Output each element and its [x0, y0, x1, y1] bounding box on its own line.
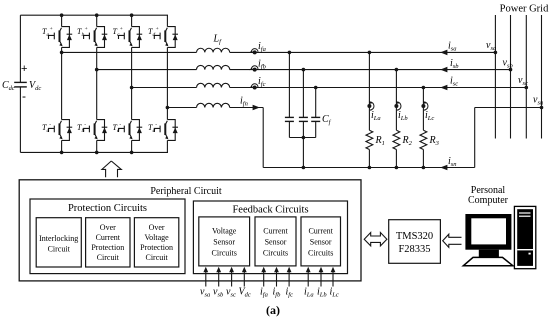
current arrow i_fn	[253, 105, 260, 111]
arrow PC to TMS320	[443, 234, 462, 247]
resistor R2	[393, 70, 400, 168]
wire: leg 1 vertical	[61, 15, 63, 152]
svg-text:-: -	[22, 89, 26, 103]
current sensor mark i_La	[367, 101, 374, 110]
resistor R1	[366, 52, 373, 167]
wire: leg 2 vertical	[96, 15, 98, 152]
svg-text:Power Grid: Power Grid	[500, 4, 549, 15]
node: leg3 phase c tap	[130, 86, 134, 90]
current sensor mark i_fa	[249, 49, 258, 55]
Feedback Circuits box	[193, 201, 347, 274]
Protection Circuits box	[30, 199, 185, 274]
arrowhead i_La	[306, 267, 311, 272]
svg-text:(a): (a)	[266, 303, 280, 317]
wire: arrow i_Lc	[332, 271, 334, 287]
wire: arrow i_fa	[263, 271, 265, 287]
transistor Tc-	[119, 120, 143, 141]
node: line a cap branch	[288, 51, 292, 55]
wire: arrow v_sc	[231, 271, 233, 287]
wire: phase a line with inductor	[62, 48, 496, 52]
current sensor mark i_fc	[249, 84, 258, 90]
labels: inverter transistors	[42, 26, 159, 134]
current sensor mark i_Lc	[421, 101, 428, 110]
wire: arrow i_La	[307, 271, 309, 287]
node: cap bus center	[302, 136, 306, 140]
Current Sensor Circuits box 1	[255, 217, 296, 266]
arrowhead V_dc	[242, 267, 247, 272]
node: neutral R1	[368, 166, 372, 170]
wire: capacitor bus to neutral	[302, 138, 304, 168]
arrowhead i_Lc	[331, 267, 336, 272]
current arrow i_sa	[440, 50, 447, 56]
transistor Td-	[154, 120, 178, 141]
capacitor Cdc	[14, 82, 27, 87]
power grid line 1	[494, 15, 496, 139]
power grid line 4	[541, 15, 543, 139]
svg-text:Feedback Circuits: Feedback Circuits	[232, 205, 308, 216]
TMS320 F28335 box	[389, 220, 441, 264]
transistor Ta+	[49, 27, 73, 48]
wire: arrow i_fb	[276, 271, 278, 287]
wire: left DC link lower	[19, 87, 21, 153]
transistor Tb-	[84, 120, 108, 141]
svg-text:CurrentSensorCircuits: CurrentSensorCircuits	[263, 227, 289, 258]
current arrow i_sb	[440, 67, 447, 73]
node: leg1 phase a tap	[60, 51, 64, 55]
node: bottom rail leg1	[60, 151, 64, 155]
node: bottom rail leg2	[95, 151, 99, 155]
node: bottom rail leg3	[130, 151, 134, 155]
node: neutral R2	[395, 166, 399, 170]
current arrow i_sn	[440, 165, 447, 171]
node: leg2 phase b tap	[95, 68, 99, 72]
big hollow arrow to bridge	[102, 161, 121, 177]
wire: DC top rail	[20, 14, 168, 16]
current arrow i_sc	[440, 85, 447, 91]
current sensor mark i_fb	[249, 66, 258, 72]
personal computer tower	[514, 206, 535, 268]
power grid line 2	[510, 15, 512, 139]
svg-text:PersonalComputer: PersonalComputer	[468, 185, 509, 206]
arrowhead v_sb	[216, 267, 221, 272]
Over Current Protection Circuit box	[86, 218, 130, 267]
wire: leg 3 vertical	[131, 15, 133, 152]
arrowhead i_Lb	[319, 267, 324, 272]
wire: arrow v_sa	[205, 271, 207, 287]
node: top rail leg3	[130, 13, 134, 17]
node: leg4 neutral tap	[166, 106, 170, 110]
power grid line 3	[525, 15, 527, 139]
transistor Ta-	[49, 120, 73, 141]
Peripheral Circuit box	[19, 180, 361, 281]
wire: phase c line with inductor	[132, 83, 527, 87]
capacitor Cf branch b	[299, 70, 308, 138]
wire: capacitor bottom bus	[289, 137, 315, 139]
node: neutral R3	[422, 166, 426, 170]
capacitor Cf branch c	[311, 88, 320, 138]
wire: arrow i_fc	[288, 271, 290, 287]
svg-text:CurrentSensorCircuits: CurrentSensorCircuits	[308, 227, 334, 258]
wire: arrow i_Lb	[320, 271, 322, 287]
svg-text:+: +	[21, 63, 27, 75]
svg-text:Protection Circuits: Protection Circuits	[68, 203, 147, 214]
node: neutral grid	[540, 106, 544, 110]
wire: phase b line with inductor	[97, 65, 511, 69]
Over Voltage Protection Circuit box	[134, 218, 178, 267]
arrowhead v_sa	[203, 267, 208, 272]
node: line b R2 branch	[395, 68, 399, 72]
node: line c R3 branch	[422, 86, 426, 90]
Interlocking Circuit box	[36, 218, 81, 267]
arrowhead i_fa	[261, 267, 266, 272]
capacitor Cf branch a	[285, 52, 294, 137]
personal computer monitor	[463, 214, 513, 266]
transistor Td+	[154, 27, 178, 48]
wire: neutral line with inductor	[167, 103, 541, 167]
transistor Tc+	[119, 27, 143, 48]
Current Sensor Circuits box 2	[301, 217, 341, 266]
wire: leg 4 vertical	[166, 15, 168, 152]
transistor Tb+	[84, 27, 108, 48]
arrowhead v_sc	[229, 267, 234, 272]
input arrows to sensor boxes	[206, 271, 333, 287]
arrowhead i_fb	[274, 267, 279, 272]
double arrow peripheral-TMS320	[364, 233, 387, 246]
current sensor mark i_Lb	[394, 101, 401, 110]
node: line b grid	[509, 68, 513, 72]
arrowhead i_fc	[287, 267, 292, 272]
resistor R3	[420, 88, 427, 168]
node: line c cap branch	[314, 86, 318, 90]
node: top rail leg2	[95, 13, 99, 17]
node: line b cap branch	[302, 68, 306, 72]
node: line a grid	[494, 51, 498, 55]
node: line c grid	[525, 86, 529, 90]
node: neutral cap	[302, 166, 306, 170]
wire: DC bottom rail	[20, 151, 168, 153]
wire: arrow V_dc	[243, 271, 245, 287]
node: line a R1 branch	[368, 51, 372, 55]
node: top rail leg1	[60, 13, 64, 17]
svg-text:Peripheral Circuit: Peripheral Circuit	[150, 186, 222, 197]
Voltage Sensor Circuits box	[199, 217, 250, 266]
wire: arrow v_sb	[218, 271, 220, 287]
wire: left DC link upper	[19, 15, 21, 82]
svg-text:VoltageSensorCircuits: VoltageSensorCircuits	[212, 227, 237, 258]
